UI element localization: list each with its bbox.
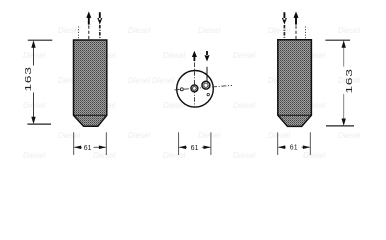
svg-text:Diesel: Diesel <box>58 131 80 140</box>
svg-text:Diesel: Diesel <box>58 26 80 35</box>
svg-text:Diesel: Diesel <box>163 51 185 60</box>
svg-text:61: 61 <box>191 145 199 152</box>
svg-text:Diesel: Diesel <box>128 131 150 140</box>
svg-text:Diesel: Diesel <box>233 151 255 160</box>
svg-text:Diesel: Diesel <box>338 26 360 35</box>
svg-text:Diesel: Diesel <box>23 101 45 110</box>
svg-text:61: 61 <box>290 145 298 152</box>
svg-text:Diesel: Diesel <box>268 131 290 140</box>
svg-text:Diesel: Diesel <box>152 76 174 85</box>
svg-text:Diesel: Diesel <box>23 151 45 160</box>
svg-text:61: 61 <box>84 145 92 152</box>
svg-text:Diesel: Diesel <box>338 131 360 140</box>
svg-text:163: 163 <box>25 66 34 91</box>
svg-text:Diesel: Diesel <box>303 151 325 160</box>
svg-text:Diesel: Diesel <box>233 101 255 110</box>
svg-text:Diesel: Diesel <box>128 26 150 35</box>
svg-text:Diesel: Diesel <box>93 151 115 160</box>
svg-text:Diesel: Diesel <box>198 26 220 35</box>
svg-text:Diesel: Diesel <box>233 51 255 60</box>
svg-text:Diesel: Diesel <box>163 151 185 160</box>
svg-text:Diesel: Diesel <box>128 76 150 85</box>
svg-text:Diesel: Diesel <box>198 131 220 140</box>
svg-text:163: 163 <box>345 68 354 93</box>
svg-text:Diesel: Diesel <box>23 51 45 60</box>
svg-text:Diesel: Diesel <box>268 26 290 35</box>
